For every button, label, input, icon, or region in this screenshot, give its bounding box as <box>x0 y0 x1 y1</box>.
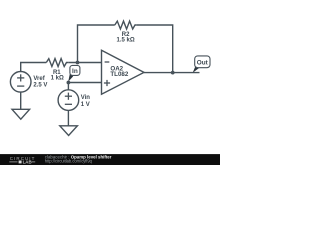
svg-text:2.5 V: 2.5 V <box>33 82 47 88</box>
wire: Vref bottom to ground <box>20 92 22 109</box>
ground under Vref <box>12 109 30 119</box>
voltage source Vin circle <box>58 90 79 111</box>
svg-text:TL082: TL082 <box>110 71 128 78</box>
junction node In (Vin / non-inverting) <box>67 81 71 85</box>
Vin plus symbol <box>65 95 72 97</box>
wire: Vin node to op-amp non-inverting input <box>68 82 101 84</box>
junction node Out (feedback / output) <box>171 71 175 75</box>
op-amp minus input symbol <box>105 61 110 63</box>
svg-text:Vin: Vin <box>81 95 91 101</box>
wire: Vref top to R1 <box>21 63 47 72</box>
Vref plus symbol <box>17 77 24 79</box>
svg-text:Out: Out <box>197 59 209 66</box>
voltage source Vref circle <box>10 72 31 93</box>
Vin minus symbol <box>65 103 72 105</box>
svg-text:LAB: LAB <box>23 160 32 165</box>
wire: Vin vertical to node <box>67 83 69 91</box>
ground under Vin <box>60 126 78 136</box>
flag Out <box>193 56 210 73</box>
svg-text:http://circuitlab.com/cyfl9q: http://circuitlab.com/cyfl9q <box>45 159 93 164</box>
junction node A (feedback / R1 / op-amp inverting) <box>76 61 80 65</box>
Vref minus symbol <box>17 85 24 87</box>
op-amp plus input symbol <box>104 82 110 84</box>
footer credit text <box>45 155 112 164</box>
wire: R1 to op-amp inverting input <box>68 62 101 64</box>
footer bar <box>0 154 220 165</box>
op-amp U1 OA2 triangle <box>102 50 145 94</box>
svg-text:1 kΩ: 1 kΩ <box>51 76 64 82</box>
svg-text:1.5 kΩ: 1.5 kΩ <box>117 38 135 44</box>
flag In <box>68 65 80 81</box>
wire: Vin bottom to ground <box>67 110 69 126</box>
CircuitLab logo <box>9 156 35 165</box>
resistor R2 <box>115 21 137 29</box>
svg-text:Vref: Vref <box>33 76 45 82</box>
wire: feedback top-left vertical from node A to R2 <box>78 25 115 63</box>
svg-text:In: In <box>72 68 78 75</box>
svg-text:1 V: 1 V <box>81 102 90 108</box>
wire: op-amp output to Out flag <box>144 72 200 74</box>
wire: R2 to output node vertical <box>137 25 173 73</box>
resistor R1 <box>46 59 68 67</box>
